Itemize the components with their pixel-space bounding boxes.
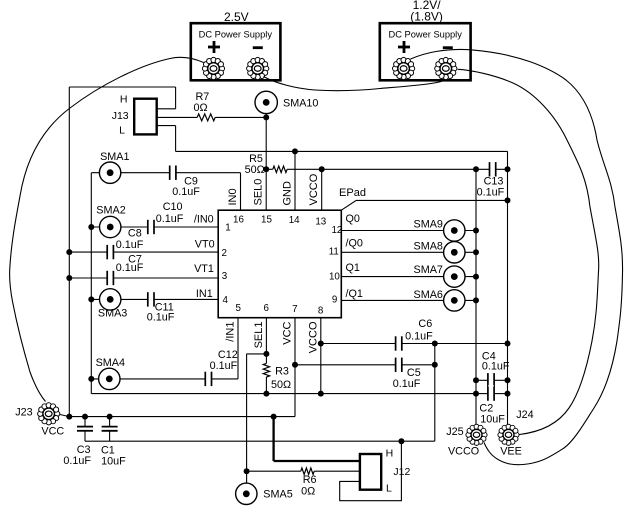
svg-text:DC Power Supply: DC Power Supply (389, 30, 463, 40)
junction R7/SMA10/SEL0 (263, 114, 269, 120)
junction SMA8 term bus (473, 249, 479, 255)
wire VCC drop to J12 H (bold) (272, 417, 274, 461)
junction C5/VEE drop (432, 362, 438, 368)
wire termination bus (VCCO) (475, 169, 477, 425)
junction pin8/VCCO rail (318, 391, 324, 397)
junction GND on VEE line (292, 148, 298, 154)
svg-text:Q0: Q0 (346, 213, 360, 225)
svg-text:3: 3 (222, 271, 228, 282)
connector SMA7 (414, 264, 465, 287)
capacitor C5 (393, 357, 421, 391)
capacitor C8 (107, 227, 144, 260)
junction VT0/VCC border (66, 249, 72, 255)
connector J12 jumper (360, 448, 411, 495)
svg-text:Q1: Q1 (346, 262, 360, 274)
svg-text:VEE: VEE (500, 446, 522, 458)
connector SMA2 (96, 205, 125, 238)
wire VCC to C7 to VT1 (69, 277, 107, 279)
wire pin7 VCC stub down (294, 318, 296, 417)
svg-text:IN1: IN1 (196, 288, 213, 300)
svg-text:SMA10: SMA10 (283, 98, 318, 110)
wire Q0 pin12 to SMA9 to term bus (341, 230, 476, 232)
wire pin6 SEL1 stub (265, 318, 267, 364)
PS1 + terminal jack (202, 57, 225, 80)
junction VT1/VCC border (66, 275, 72, 281)
junction C6/VEE drop (432, 341, 438, 347)
svg-text:8: 8 (318, 305, 324, 316)
connector SMA8 (414, 241, 465, 263)
wire VEE right bus (507, 151, 509, 425)
resistor R3 (263, 363, 291, 391)
svg-text:10uF: 10uF (480, 413, 505, 425)
junction SMA2 bus (88, 224, 94, 230)
svg-text:IN0: IN0 (227, 188, 239, 205)
svg-text:SEL1: SEL1 (253, 322, 265, 349)
capacitor C11 (147, 291, 175, 323)
svg-text:VCCO: VCCO (308, 173, 320, 205)
wire C4 line (476, 379, 488, 381)
svg-text:VCC: VCC (41, 426, 64, 438)
wire SMA10 to SEL0 (265, 110, 267, 210)
svg-text:2: 2 (222, 248, 227, 259)
svg-text:50Ω: 50Ω (271, 379, 291, 391)
connector SMA10 (255, 91, 318, 113)
wire SMA1 to C9 to IN0 (91, 172, 169, 174)
wire: PS1 + to J23 VCC (left curve) (10, 57, 204, 401)
junction pin7/C5 (292, 362, 298, 368)
connector J25 banana jack (466, 424, 488, 446)
junction SMA4 bus (88, 376, 94, 382)
svg-text:H: H (120, 93, 128, 105)
connector SMA5 (236, 483, 293, 504)
wire Q1 pin10 to SMA7 to term bus (341, 276, 476, 278)
svg-text:12: 12 (331, 225, 342, 236)
junction C1/VCC rail (107, 414, 113, 420)
resistor R5 (245, 153, 287, 176)
wire VCCO rail (91, 393, 476, 395)
junction SMA9 term bus (473, 228, 479, 234)
svg-text:0.1uF: 0.1uF (63, 455, 91, 467)
capacitor C1 (101, 417, 127, 468)
svg-text:J25: J25 (446, 426, 463, 438)
capacitor C4 (482, 350, 510, 388)
svg-text:C6: C6 (418, 318, 432, 330)
junction SMA6 term bus (473, 297, 479, 303)
wire R6 line (SMA5/SEL1 to J12 center) (247, 470, 301, 472)
svg-text:C10: C10 (163, 201, 183, 213)
capacitor C9 (170, 165, 201, 199)
junction C13 right / VEE bus (505, 166, 511, 172)
svg-text:/Q0: /Q0 (346, 238, 363, 250)
svg-text:SMA5: SMA5 (263, 488, 292, 500)
wire C13 to VEE bus (476, 168, 508, 170)
svg-text:J24: J24 (516, 409, 533, 421)
junction C6 line/VEE bus (505, 341, 511, 347)
svg-text:0Ω: 0Ω (194, 102, 208, 114)
svg-text:C8: C8 (128, 227, 142, 239)
svg-text:GND: GND (281, 181, 293, 206)
wire pin5 /IN1 stub (237, 318, 239, 379)
resistor R7 (194, 91, 216, 121)
svg-text:R6: R6 (303, 474, 317, 486)
svg-text:10uF: 10uF (101, 455, 126, 467)
svg-text:2.5V: 2.5V (224, 10, 249, 24)
connector J23 banana jack (37, 402, 60, 425)
connector J13 jumper (112, 93, 157, 136)
capacitor C3 (63, 417, 94, 467)
wire SEL1 jog to SMA5 drop (247, 353, 267, 355)
wire J13 L stub (157, 125, 176, 127)
PS2 + terminal jack (392, 57, 415, 80)
svg-text:J13: J13 (112, 110, 129, 122)
svg-text:EPad: EPad (339, 187, 366, 199)
svg-text:0Ω: 0Ω (301, 486, 315, 498)
junction SEL1 (263, 351, 269, 357)
svg-text:6: 6 (263, 303, 269, 314)
wire SMA4 to C12 to /IN1 (91, 378, 205, 380)
svg-text:15: 15 (261, 214, 272, 225)
wire /Q1 pin9 to SMA6 to term bus (341, 299, 476, 301)
wire: PS1 - to PS2 - (dip curve) (264, 77, 446, 91)
svg-text:R3: R3 (275, 366, 289, 378)
capacitor C13 (477, 161, 505, 198)
svg-text:R7: R7 (195, 91, 209, 103)
svg-text:SMA4: SMA4 (96, 357, 125, 369)
svg-text:5: 5 (235, 303, 241, 314)
capacitor C12 (205, 349, 237, 387)
svg-text:VT0: VT0 (195, 239, 215, 251)
junction VCCO rail/term bus/C2 (473, 391, 479, 397)
junction SMA7 term bus (473, 274, 479, 280)
wire VEE bottom line (85, 440, 435, 442)
connector SMA9 (414, 219, 465, 242)
svg-text:VCCO: VCCO (308, 321, 320, 353)
capacitor C2 (479, 385, 505, 425)
junction EPad/VEE (505, 197, 511, 203)
svg-text:0.1uF: 0.1uF (116, 239, 144, 251)
svg-text:0.1uF: 0.1uF (477, 186, 505, 198)
DC power supply PS1 2.5V (191, 10, 281, 80)
connector J24 banana jack (498, 424, 520, 446)
svg-text:0.1uF: 0.1uF (482, 360, 510, 372)
wire pin8 VCCO stub down (320, 318, 322, 394)
svg-text:13: 13 (315, 217, 326, 228)
svg-text:11: 11 (329, 246, 339, 257)
svg-text:10: 10 (329, 272, 340, 283)
wire VEE top (J13 L to right bus) (176, 150, 508, 152)
connector SMA1 (99, 151, 129, 183)
svg-text:7: 7 (292, 304, 297, 315)
svg-text:0.1uF: 0.1uF (172, 186, 200, 198)
junction SMA5/SEL1/R6 (244, 468, 250, 474)
wire VCC top (J13 H to left border) (69, 86, 175, 88)
svg-text:VT1: VT1 (194, 263, 214, 275)
junction VCCO pin13 (319, 166, 325, 172)
wire SMA shell bus to VCCO rail (90, 173, 92, 394)
PS2 - terminal jack (434, 57, 457, 80)
DC power supply PS2 1.2V/(1.8V) (380, 0, 471, 80)
svg-text:SMA1: SMA1 (100, 151, 129, 163)
svg-text:SMA7: SMA7 (414, 264, 443, 276)
wire: PS2 + to J25 VCCO (outer right curve) (411, 49, 623, 464)
svg-text:50Ω: 50Ω (245, 164, 265, 176)
wire /Q0 pin11 to SMA8 to term bus (341, 251, 476, 253)
wire pin14 GND stub (294, 151, 296, 210)
svg-text:J12: J12 (393, 466, 410, 478)
svg-text:(1.8V): (1.8V) (410, 10, 443, 24)
svg-text:0.1uF: 0.1uF (147, 311, 175, 323)
junction SMA3 bus (88, 296, 94, 302)
svg-text:14: 14 (289, 215, 300, 226)
svg-text:/Q1: /Q1 (346, 288, 363, 300)
wire pin13 VCCO stub (321, 169, 323, 210)
connector SMA3 (98, 289, 127, 320)
svg-text:DC Power Supply: DC Power Supply (199, 30, 273, 40)
svg-text:SMA8: SMA8 (414, 241, 443, 253)
wire J13 H stub (175, 87, 177, 109)
svg-text:SEL0: SEL0 (253, 179, 265, 206)
svg-text:0.1uF: 0.1uF (156, 213, 184, 225)
svg-text:VCCO: VCCO (448, 446, 479, 458)
capacitor C7 (107, 253, 144, 286)
svg-text:H: H (386, 448, 394, 460)
wire SMA3 to C11 to IN1 (91, 298, 148, 300)
wire C2 line (476, 393, 488, 395)
wire J13 center to R7 to SEL0 node (157, 116, 198, 118)
wire EPad to VEE bus (341, 200, 507, 210)
junction J23/left border (66, 414, 72, 420)
junction R5 left on SEL0 (263, 166, 269, 172)
svg-text:L: L (119, 124, 125, 136)
svg-text:4: 4 (223, 295, 229, 306)
wire R5 line (SEL0 to VCCO/C13) (287, 168, 476, 170)
svg-text:0.1uF: 0.1uF (210, 360, 238, 372)
svg-text:SMA6: SMA6 (414, 289, 443, 301)
svg-text:SMA9: SMA9 (414, 219, 443, 231)
svg-text:16: 16 (233, 214, 244, 225)
svg-text:/IN1: /IN1 (224, 322, 236, 342)
svg-text:/IN0: /IN0 (194, 214, 214, 226)
capacitor C10 (148, 201, 184, 235)
svg-text:SMA3: SMA3 (98, 308, 127, 320)
junction C3/VCC rail (82, 414, 88, 420)
svg-text:0.1uF: 0.1uF (405, 330, 433, 342)
wire C6 line (VCCO pin8 to VEE) (321, 343, 396, 345)
wire SMA2 to C10 to /IN0 (91, 226, 148, 228)
wire: PS2 - to J24 VEE (inner right curve) (458, 69, 599, 434)
wire J12 L loop (340, 441, 402, 501)
wire VCC to C8 to VT0 (69, 251, 107, 253)
svg-text:J23: J23 (15, 407, 32, 419)
connector SMA4 (96, 357, 125, 389)
wire VEE drop x435 (434, 344, 436, 442)
junction J12 L / VEE line (398, 438, 404, 444)
junction pin8/C6 (318, 341, 324, 347)
connector SMA6 (414, 289, 465, 311)
PS1 - terminal jack (246, 57, 269, 80)
wire C5 line (VCC pin7 to VEE) (295, 364, 396, 366)
capacitor C6 (396, 318, 434, 351)
svg-text:C5: C5 (407, 367, 421, 379)
svg-text:L: L (386, 483, 392, 495)
svg-text:VCC: VCC (281, 321, 293, 344)
svg-text:1: 1 (225, 223, 230, 234)
svg-text:0.1uF: 0.1uF (393, 378, 421, 390)
junction VCC rail / J12 H drop (271, 414, 277, 420)
wire VCC rail (J23 to pin7) (60, 415, 69, 417)
resistor R6 (301, 468, 317, 498)
svg-text:0.1uF: 0.1uF (116, 262, 144, 274)
junction C13 left / term bus (473, 166, 479, 172)
op-amp U1 clock buffer IC (218, 210, 342, 318)
svg-text:SMA2: SMA2 (96, 205, 125, 217)
junction R3 to VCCO rail (263, 391, 269, 397)
wire VCC left border (68, 87, 70, 417)
svg-text:9: 9 (332, 295, 337, 306)
